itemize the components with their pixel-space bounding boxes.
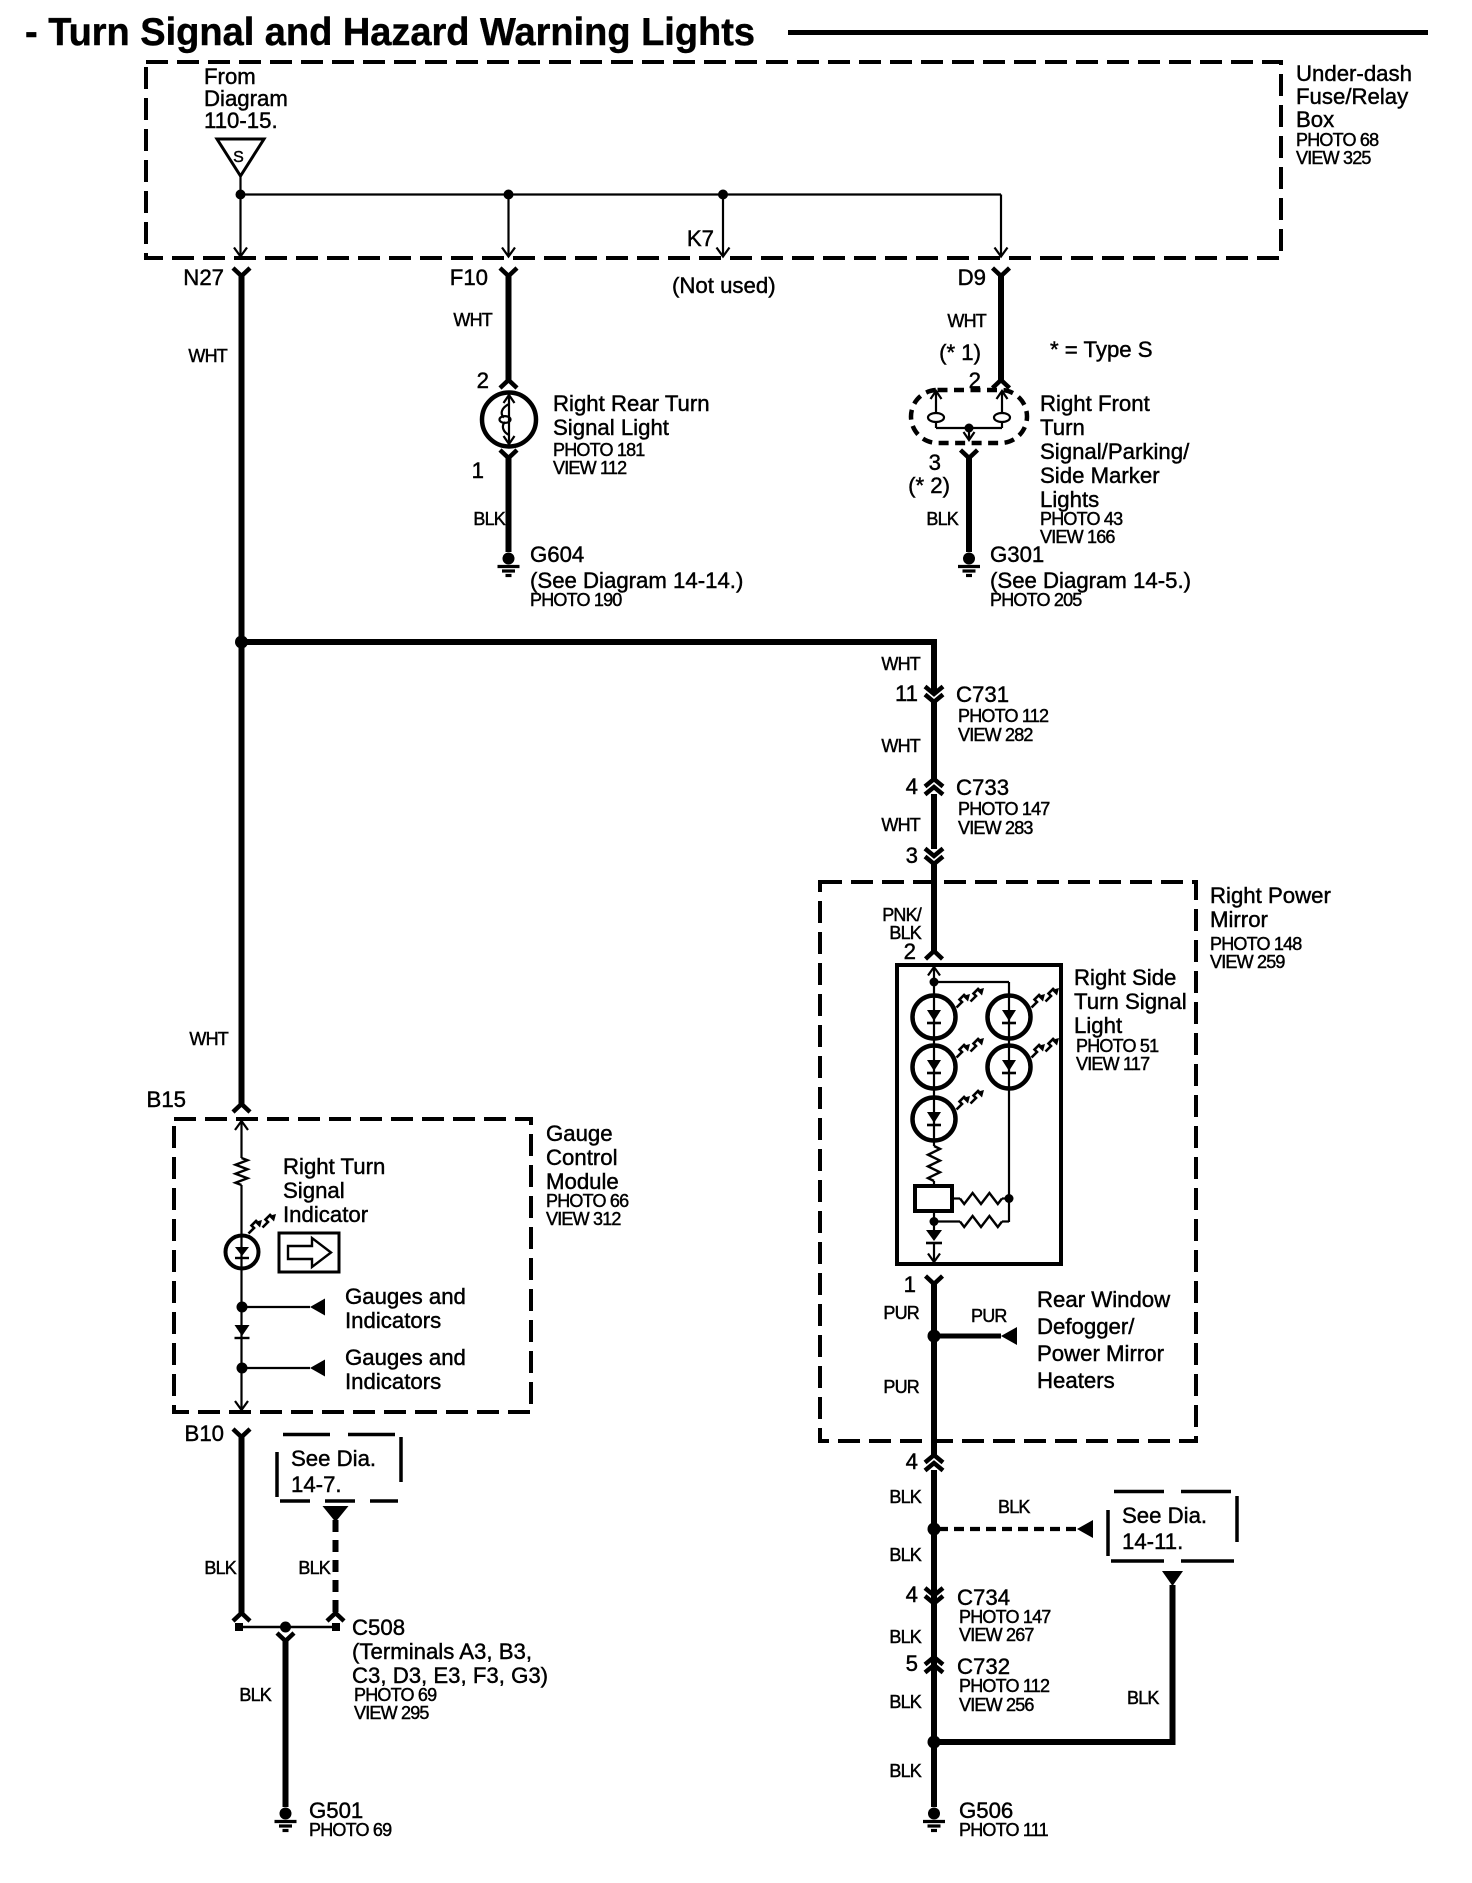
svg-text:WHT: WHT — [188, 346, 227, 366]
svg-text:- Turn Signal and Hazard Warni: - Turn Signal and Hazard Warning Lights — [25, 11, 755, 54]
svg-text:B15: B15 — [147, 1087, 186, 1112]
svg-text:G604: G604 — [530, 542, 584, 567]
svg-text:14-11.: 14-11. — [1122, 1529, 1183, 1554]
svg-text:PHOTO 147: PHOTO 147 — [958, 799, 1050, 819]
svg-text:BLK: BLK — [889, 1545, 921, 1565]
svg-text:PHOTO 66: PHOTO 66 — [546, 1191, 629, 1211]
svg-text:BLK: BLK — [239, 1685, 271, 1705]
svg-text:2: 2 — [477, 368, 489, 393]
svg-text:C508: C508 — [352, 1615, 405, 1640]
svg-text:Indicators: Indicators — [345, 1369, 441, 1394]
svg-text:S: S — [233, 149, 244, 166]
svg-text:(Terminals A3, B3,: (Terminals A3, B3, — [352, 1639, 532, 1664]
svg-text:(Not used): (Not used) — [672, 273, 776, 298]
svg-text:4: 4 — [906, 1582, 918, 1607]
svg-text:PHOTO 43: PHOTO 43 — [1040, 509, 1123, 529]
svg-text:Signal: Signal — [283, 1178, 345, 1203]
svg-text:Side Marker: Side Marker — [1040, 463, 1160, 488]
svg-text:1: 1 — [472, 458, 484, 483]
svg-text:PHOTO 190: PHOTO 190 — [530, 590, 622, 610]
svg-text:PHOTO 205: PHOTO 205 — [990, 590, 1082, 610]
svg-text:Under-dash: Under-dash — [1296, 61, 1412, 86]
svg-text:PUR: PUR — [971, 1306, 1007, 1326]
svg-text:BLK: BLK — [298, 1558, 330, 1578]
svg-text:VIEW 112: VIEW 112 — [553, 458, 627, 478]
svg-text:(* 2): (* 2) — [908, 473, 950, 498]
svg-text:VIEW 267: VIEW 267 — [959, 1625, 1034, 1645]
svg-text:Gauge: Gauge — [546, 1121, 613, 1146]
svg-text:C733: C733 — [956, 775, 1009, 800]
svg-text:Signal/Parking/: Signal/Parking/ — [1040, 439, 1190, 464]
svg-text:VIEW 295: VIEW 295 — [354, 1703, 429, 1723]
svg-text:2: 2 — [904, 939, 916, 964]
svg-text:PNK/: PNK/ — [882, 905, 922, 925]
svg-text:Right Power: Right Power — [1210, 883, 1331, 908]
svg-text:BLK: BLK — [889, 1761, 921, 1781]
svg-text:BLK: BLK — [1127, 1688, 1159, 1708]
svg-text:Indicators: Indicators — [345, 1308, 441, 1333]
svg-text:Gauges and: Gauges and — [345, 1284, 466, 1309]
svg-text:PHOTO 112: PHOTO 112 — [958, 706, 1049, 726]
svg-text:Signal Light: Signal Light — [553, 415, 669, 440]
svg-text:See Dia.: See Dia. — [291, 1446, 376, 1471]
svg-text:Control: Control — [546, 1145, 618, 1170]
svg-text:PHOTO 148: PHOTO 148 — [1210, 934, 1302, 954]
svg-text:Mirror: Mirror — [1210, 907, 1269, 932]
svg-text:PHOTO 112: PHOTO 112 — [959, 1676, 1050, 1696]
svg-text:Right Front: Right Front — [1040, 391, 1150, 416]
svg-text:PHOTO 68: PHOTO 68 — [1296, 130, 1379, 150]
svg-text:PHOTO 69: PHOTO 69 — [309, 1820, 392, 1840]
svg-text:Right Turn: Right Turn — [283, 1154, 385, 1179]
svg-text:N27: N27 — [183, 265, 224, 290]
svg-text:BLK: BLK — [889, 1487, 921, 1507]
svg-text:BLK: BLK — [998, 1497, 1030, 1517]
svg-text:WHT: WHT — [881, 654, 920, 674]
svg-text:PHOTO 181: PHOTO 181 — [553, 440, 645, 460]
svg-text:VIEW 259: VIEW 259 — [1210, 952, 1285, 972]
svg-text:WHT: WHT — [189, 1029, 228, 1049]
svg-text:VIEW 117: VIEW 117 — [1076, 1054, 1150, 1074]
svg-text:See Dia.: See Dia. — [1122, 1503, 1207, 1528]
svg-text:Turn Signal: Turn Signal — [1074, 989, 1187, 1014]
svg-text:Defogger/: Defogger/ — [1037, 1314, 1135, 1339]
svg-text:PUR: PUR — [883, 1303, 919, 1323]
svg-text:WHT: WHT — [881, 736, 920, 756]
svg-text:BLK: BLK — [889, 1627, 921, 1647]
svg-text:VIEW 256: VIEW 256 — [959, 1695, 1034, 1715]
svg-text:Fuse/Relay: Fuse/Relay — [1296, 84, 1409, 109]
svg-text:Turn: Turn — [1040, 415, 1085, 440]
svg-text:BLK: BLK — [926, 509, 958, 529]
svg-text:Right Side: Right Side — [1074, 965, 1176, 990]
svg-text:D9: D9 — [958, 265, 986, 290]
svg-text:5: 5 — [906, 1651, 918, 1676]
svg-text:3: 3 — [929, 450, 941, 475]
svg-text:Light: Light — [1074, 1013, 1122, 1038]
svg-text:1: 1 — [904, 1272, 916, 1297]
svg-text:G301: G301 — [990, 542, 1044, 567]
svg-text:C731: C731 — [956, 682, 1009, 707]
svg-text:VIEW 283: VIEW 283 — [958, 818, 1033, 838]
svg-text:14-7.: 14-7. — [291, 1472, 342, 1497]
svg-text:VIEW 312: VIEW 312 — [546, 1209, 621, 1229]
svg-text:F10: F10 — [450, 265, 488, 290]
svg-text:PHOTO 51: PHOTO 51 — [1076, 1036, 1159, 1056]
svg-text:VIEW 166: VIEW 166 — [1040, 527, 1115, 547]
svg-text:Rear Window: Rear Window — [1037, 1287, 1171, 1312]
svg-text:Power Mirror: Power Mirror — [1037, 1341, 1165, 1366]
svg-text:Right Rear Turn: Right Rear Turn — [553, 391, 710, 416]
svg-text:11: 11 — [895, 681, 918, 706]
svg-text:PUR: PUR — [883, 1377, 919, 1397]
svg-text:B10: B10 — [185, 1421, 224, 1446]
svg-text:(* 1): (* 1) — [939, 340, 981, 365]
svg-text:BLK: BLK — [473, 509, 505, 529]
svg-text:Gauges and: Gauges and — [345, 1345, 466, 1370]
svg-text:VIEW 282: VIEW 282 — [958, 725, 1033, 745]
svg-text:Heaters: Heaters — [1037, 1368, 1115, 1393]
svg-text:3: 3 — [906, 843, 918, 868]
svg-text:Box: Box — [1296, 107, 1334, 132]
svg-text:BLK: BLK — [889, 1692, 921, 1712]
svg-text:WHT: WHT — [881, 815, 920, 835]
svg-text:K7: K7 — [687, 226, 714, 251]
svg-text:Indicator: Indicator — [283, 1202, 369, 1227]
svg-text:PHOTO 147: PHOTO 147 — [959, 1607, 1051, 1627]
svg-text:4: 4 — [906, 774, 918, 799]
svg-text:PHOTO 69: PHOTO 69 — [354, 1685, 437, 1705]
svg-text:BLK: BLK — [204, 1558, 236, 1578]
svg-text:PHOTO 111: PHOTO 111 — [959, 1820, 1049, 1840]
svg-text:4: 4 — [906, 1449, 918, 1474]
svg-text:VIEW 325: VIEW 325 — [1296, 148, 1371, 168]
svg-text:WHT: WHT — [453, 310, 492, 330]
svg-text:110-15.: 110-15. — [204, 108, 278, 133]
svg-text:WHT: WHT — [947, 311, 986, 331]
svg-text:* = Type S: * = Type S — [1050, 337, 1153, 362]
